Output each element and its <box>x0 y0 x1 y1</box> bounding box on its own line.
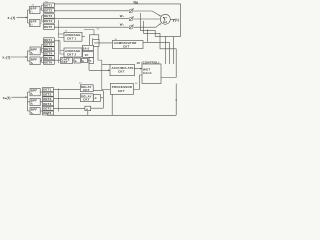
box tap26 <box>44 60 55 64</box>
box D1 <box>80 85 93 92</box>
wire signal line 3 <box>54 26 129 28</box>
svg-text:1C: 1C <box>85 53 90 57</box>
wire riser x101 <box>102 89 111 91</box>
box T1 <box>90 35 99 46</box>
box L3 <box>30 108 40 115</box>
svg-text:Na: Na <box>134 1 139 5</box>
label ref 30 <box>115 39 118 41</box>
svg-text:DET2: DET2 <box>44 43 52 47</box>
label plus top <box>159 14 161 18</box>
svg-text:DET1: DET1 <box>44 38 52 42</box>
svg-text:DET5: DET5 <box>43 107 51 111</box>
svg-text:+: + <box>159 14 161 18</box>
svg-text:DET4: DET4 <box>44 19 52 23</box>
wire M1 to sum <box>133 11 161 16</box>
wire bus group3 <box>27 92 30 111</box>
wire riser to PROC2 <box>111 94 113 115</box>
svg-text:W₂: W₂ <box>120 22 125 26</box>
row box R2 <box>74 58 81 63</box>
multiplier M1 <box>129 8 134 13</box>
wire T1a down <box>98 47 110 91</box>
wire weight w2 <box>144 21 177 78</box>
multiplier M3 <box>129 24 134 29</box>
svg-text:e: e <box>86 107 88 111</box>
wire T2 down to ACC <box>89 57 110 70</box>
wire L links <box>40 92 42 111</box>
box D4 <box>93 95 100 102</box>
label comparator above P <box>142 61 160 65</box>
wire bus group1 <box>27 10 29 23</box>
svg-text:DET4: DET4 <box>44 52 52 56</box>
wire weight w3 <box>147 29 169 64</box>
svg-text:(CONTROL): (CONTROL) <box>142 61 160 65</box>
svg-text:16: 16 <box>137 61 141 65</box>
box tap31 <box>43 88 54 92</box>
box tap33 <box>43 97 54 101</box>
svg-text:24.0: 24.0 <box>83 46 90 50</box>
svg-text:x₂(t): x₂(t) <box>2 56 10 60</box>
wire B2 links <box>40 57 43 62</box>
label 16 <box>137 61 141 65</box>
input label x2(t) <box>2 56 10 60</box>
box tap35 <box>43 106 54 110</box>
input label x1(t) <box>8 16 16 20</box>
wire weight w4 <box>164 36 166 64</box>
box tap22 <box>44 42 55 46</box>
wire C2 out <box>82 52 85 54</box>
label w2 <box>120 22 125 26</box>
box C1 <box>64 32 82 41</box>
input label xn(t) <box>3 96 11 100</box>
svg-text:DET6: DET6 <box>44 61 52 65</box>
box tap36 <box>43 111 54 115</box>
box tap14 <box>44 19 55 23</box>
wire output <box>170 18 175 20</box>
box L2 <box>30 98 40 105</box>
box tap12 <box>44 8 55 12</box>
svg-text:b: b <box>82 59 84 63</box>
svg-text:DET5: DET5 <box>44 25 52 29</box>
box W comparator <box>113 40 144 48</box>
wire C1 out <box>82 36 85 38</box>
svg-text:CKT: CKT <box>123 44 130 48</box>
box B1 <box>30 20 41 27</box>
box T1a <box>93 39 99 46</box>
svg-text:f₃: f₃ <box>31 111 34 115</box>
box A1 <box>30 7 41 14</box>
wire ACC to P <box>134 68 142 70</box>
box tap21 <box>44 38 55 42</box>
label ref 26 <box>65 30 68 32</box>
svg-text:CKT: CKT <box>83 88 90 92</box>
row box R4 <box>89 58 94 64</box>
box tap11 <box>44 3 55 7</box>
svg-text:DET4: DET4 <box>43 102 51 106</box>
wire signal line 1 <box>55 10 129 12</box>
svg-text:a: a <box>75 59 77 63</box>
box C2 <box>64 48 82 57</box>
wire T1 to W <box>94 42 113 44</box>
label plus bottom <box>159 22 161 26</box>
row box R3 <box>82 58 88 62</box>
wire bus group2 <box>27 51 30 61</box>
svg-text:DET2: DET2 <box>43 92 51 96</box>
svg-text:CKT: CKT <box>83 98 90 102</box>
box tap23 <box>44 47 55 51</box>
wire g3 bus right <box>58 89 60 112</box>
wire T1 top bus <box>84 30 94 43</box>
box tap24 <box>44 51 55 55</box>
svg-text:CKT: CKT <box>118 70 125 74</box>
svg-text:Σ: Σ <box>163 15 168 24</box>
svg-text:CKT 1: CKT 1 <box>67 37 77 41</box>
wire M2 to sum <box>133 18 160 20</box>
box ACC <box>110 64 134 75</box>
box P adaptive processor <box>142 64 161 84</box>
wire row feed <box>54 59 89 61</box>
svg-text:DET3: DET3 <box>43 97 51 101</box>
box tap15 <box>44 24 55 29</box>
label Na <box>134 1 139 5</box>
box D3 <box>85 106 91 111</box>
wire right rail <box>180 4 182 37</box>
box T2a <box>83 45 94 50</box>
wire D4 out <box>101 97 104 99</box>
wire g2 bus right <box>58 40 60 64</box>
wire weight w1 <box>140 13 180 64</box>
svg-text:DET3: DET3 <box>44 14 52 18</box>
label y(t) <box>173 18 179 22</box>
wire g3 out1 <box>54 88 81 90</box>
wire input 2 arrow <box>11 56 28 58</box>
box tap25 <box>44 56 55 60</box>
label w1 <box>120 14 125 18</box>
box T2b <box>83 52 94 58</box>
svg-text:xₙ(t): xₙ(t) <box>3 96 11 100</box>
svg-text:DET1: DET1 <box>44 3 52 7</box>
box A2 <box>30 47 40 55</box>
svg-text:CKT: CKT <box>61 60 68 64</box>
wire W out <box>143 41 147 43</box>
svg-text:DET1: DET1 <box>43 88 51 92</box>
wire signal line 2 <box>55 17 129 19</box>
summer U1 <box>160 14 170 24</box>
svg-text:DET2: DET2 <box>44 8 52 12</box>
svg-text:CALC: CALC <box>143 71 153 75</box>
box PROC2 <box>110 84 133 95</box>
wire stub x58 <box>58 20 64 38</box>
wire A1 to taps <box>40 5 44 10</box>
label ref 22a <box>45 2 49 4</box>
wire input 1 arrow <box>17 17 28 19</box>
wire g3 out2 <box>54 98 81 100</box>
svg-text:CKT 2: CKT 2 <box>67 52 77 56</box>
svg-text:c: c <box>90 59 92 63</box>
svg-text:+: + <box>159 22 161 26</box>
wire bottom rail <box>48 84 177 116</box>
svg-text:DET5: DET5 <box>44 56 52 60</box>
label ref 20 <box>32 5 35 7</box>
box tap34 <box>43 102 54 106</box>
wire A2 links <box>40 45 43 53</box>
wire input N arrow <box>12 96 28 98</box>
wire PROC2 to P <box>134 75 143 90</box>
box tap13 <box>44 14 55 18</box>
svg-text:d: d <box>95 96 97 100</box>
row box R1 <box>61 57 73 64</box>
wire B1 to taps <box>40 16 44 23</box>
svg-text:CKT: CKT <box>118 89 125 93</box>
svg-text:x₁(t): x₁(t) <box>8 16 16 20</box>
svg-text:y(t): y(t) <box>173 18 179 22</box>
box L1 <box>30 89 40 96</box>
wire g2 outs <box>54 41 64 54</box>
svg-text:W₁: W₁ <box>120 14 125 18</box>
wire top rail <box>55 3 181 5</box>
wire g3 out3 <box>54 108 85 110</box>
box D2 <box>80 94 93 102</box>
wire feedback arrow <box>175 98 177 100</box>
wire M3 to sum <box>133 23 161 27</box>
label ref 36 <box>135 83 138 85</box>
svg-text:DET3: DET3 <box>44 47 52 51</box>
label ref 34 <box>79 83 82 85</box>
multiplier M2 <box>129 16 134 21</box>
box tap32 <box>43 92 54 96</box>
wire D1 out <box>91 91 104 109</box>
box B2 <box>30 57 40 65</box>
label ref 28 <box>97 28 100 30</box>
